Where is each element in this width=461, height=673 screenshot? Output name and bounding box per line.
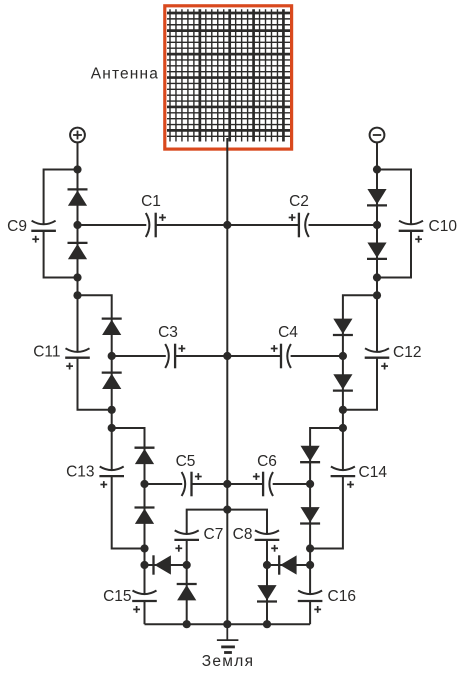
node row1 center	[223, 221, 231, 229]
svg-text:C5: C5	[176, 453, 196, 470]
label C7	[204, 526, 224, 543]
svg-text:Антенна: Антенна	[91, 66, 159, 83]
svg-text:C15: C15	[103, 588, 131, 605]
capacitor C1	[146, 213, 166, 238]
wire bottom rail	[145, 623, 311, 625]
diode D14	[300, 507, 320, 523]
label C16	[328, 588, 356, 605]
node A3R	[373, 273, 381, 281]
label C15	[103, 588, 131, 605]
diode D5	[135, 448, 155, 464]
label C8	[233, 526, 253, 543]
svg-text:C14: C14	[359, 464, 388, 481]
label C9	[7, 218, 27, 235]
node C2b	[140, 480, 148, 488]
capacitor C3	[165, 344, 185, 369]
capacitor C10	[399, 221, 424, 243]
node C2bR	[306, 480, 314, 488]
node rail left	[183, 620, 191, 628]
diode D7	[154, 555, 171, 574]
wire B3 to B4	[111, 410, 113, 428]
label C6	[257, 453, 277, 470]
svg-text:C2: C2	[289, 193, 309, 210]
wire B3R to B4R	[342, 410, 344, 428]
wire stage2R lower	[342, 356, 344, 410]
node B2	[108, 352, 116, 360]
wire A4R to stage2R	[343, 295, 377, 356]
diode D10	[367, 243, 387, 259]
wire B4R to stage3R	[310, 428, 343, 484]
wire row1	[78, 224, 378, 226]
node A1R	[373, 165, 381, 173]
capacitor C12	[365, 348, 390, 369]
antenna mesh	[167, 9, 290, 141]
svg-text:C13: C13	[66, 464, 94, 481]
node A4R	[373, 291, 381, 299]
label C2	[289, 193, 309, 210]
diode D2	[68, 243, 88, 259]
node B2R	[339, 352, 347, 360]
wire C9 branch top	[44, 170, 78, 225]
capacitor C15	[132, 591, 157, 613]
svg-text:C7: C7	[204, 526, 224, 543]
wire C16 branch	[309, 565, 311, 624]
node B3R	[339, 406, 347, 414]
node A4	[73, 291, 81, 299]
node B3	[108, 406, 116, 414]
wire row3	[145, 483, 311, 485]
label C12	[393, 344, 421, 361]
label Ground	[202, 653, 255, 670]
wire B4 to stage3	[112, 428, 145, 484]
label C5	[176, 453, 196, 470]
wire C10 branch bottom	[377, 231, 411, 278]
svg-text:Земля: Земля	[202, 653, 255, 670]
wire C7 branch	[187, 510, 228, 565]
capacitor C11	[65, 348, 90, 369]
svg-text:C9: C9	[7, 218, 27, 235]
wire D16 branch	[266, 565, 268, 624]
wire stage3 lower	[144, 484, 146, 549]
wire C3bR down	[309, 549, 311, 566]
capacitor C8	[255, 530, 280, 551]
antenna frame	[165, 6, 292, 149]
svg-text:C3: C3	[158, 324, 178, 341]
label Antenna	[91, 66, 159, 83]
wire C8 branch	[227, 510, 267, 565]
diode D13	[300, 446, 320, 462]
wire stage3R lower	[309, 484, 311, 549]
wire A4 to stage2	[78, 295, 112, 356]
node N7R	[263, 561, 271, 569]
diode D11	[333, 319, 353, 335]
wire C3b down	[144, 549, 146, 566]
ground	[217, 624, 239, 652]
diode D15	[279, 555, 296, 574]
wire C11 branch	[78, 295, 112, 410]
wire stage2 lower	[111, 356, 113, 410]
capacitor C2	[289, 213, 309, 238]
node C3bR	[306, 544, 314, 552]
label C10	[429, 218, 458, 235]
node B4R	[339, 424, 347, 432]
svg-text:C16: C16	[328, 588, 356, 605]
diode D4	[102, 373, 122, 389]
node C3b	[140, 544, 148, 552]
label C1	[141, 193, 161, 210]
capacitor C6	[253, 472, 273, 497]
capacitor C4	[271, 344, 291, 369]
diode D1	[68, 189, 88, 205]
diode D8	[177, 584, 197, 600]
diode D3	[102, 319, 122, 335]
node N6R	[306, 561, 314, 569]
node N6	[140, 561, 148, 569]
diode D16	[257, 585, 277, 601]
label C4	[278, 324, 298, 341]
wire center column	[226, 138, 228, 624]
node C7C8 junction	[223, 506, 231, 514]
node N7	[183, 561, 191, 569]
diode D9	[367, 189, 387, 205]
svg-text:C4: C4	[278, 324, 298, 341]
svg-text:C10: C10	[429, 218, 458, 235]
diode D12	[333, 374, 353, 390]
terminal plus	[70, 128, 85, 143]
capacitor C16	[298, 591, 323, 613]
wire plus terminal stub	[77, 142, 79, 169]
node B4	[108, 424, 116, 432]
wire bottom diode row left	[145, 564, 187, 566]
wire stage1 right chain	[376, 170, 378, 296]
wire C12 branch	[343, 295, 377, 410]
diode D6	[135, 508, 155, 524]
capacitor C9	[31, 221, 56, 243]
wire C10 branch top	[377, 170, 411, 225]
wire bottom diode row right	[267, 564, 310, 566]
label C13	[66, 464, 94, 481]
svg-text:C8: C8	[233, 526, 253, 543]
wire row2	[112, 355, 343, 357]
svg-text:C11: C11	[33, 344, 60, 361]
label C14	[359, 464, 388, 481]
wire C9 branch bottom	[44, 231, 78, 278]
node A2	[73, 221, 81, 229]
wire minus terminal stub	[376, 142, 378, 169]
svg-text:C12: C12	[393, 344, 421, 361]
terminal minus	[370, 128, 385, 143]
wire stage1 left chain	[77, 170, 79, 296]
label C3	[158, 324, 178, 341]
capacitor C13	[99, 467, 124, 488]
wire C13 branch	[112, 428, 145, 549]
capacitor C14	[331, 467, 356, 488]
node A2R	[373, 221, 381, 229]
node A3	[73, 273, 81, 281]
node rail center	[223, 620, 231, 628]
wire C15 branch	[144, 565, 146, 624]
wire C14 branch	[310, 428, 343, 549]
node row3 center	[223, 480, 231, 488]
svg-text:C6: C6	[257, 453, 277, 470]
node A1	[73, 165, 81, 173]
node row2 center	[223, 352, 231, 360]
wire D8 branch	[186, 565, 188, 624]
capacitor C5	[182, 472, 202, 497]
svg-text:C1: C1	[141, 193, 161, 210]
capacitor C7	[174, 530, 199, 551]
label C11	[33, 344, 60, 361]
node rail right	[263, 620, 271, 628]
